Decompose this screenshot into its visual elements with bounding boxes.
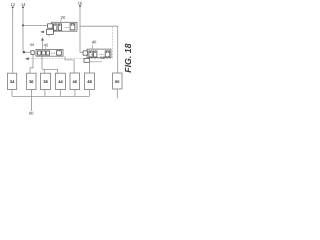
wire feed rail to box3 and box4 — [42, 69, 58, 73]
stub box6 to bus — [88, 90, 90, 97]
wire top bus from antenna3 to right — [80, 26, 118, 73]
wire antenna3 vertical — [79, 7, 81, 53]
dashed control line horizontal — [28, 58, 112, 60]
U1 input pad — [48, 24, 53, 28]
U3 ellipsis dots — [50, 52, 53, 55]
svg-text:38: 38 — [43, 79, 48, 84]
switch box 4 — [56, 73, 66, 89]
U2 input pad — [83, 51, 88, 55]
U1 filter F2 — [58, 24, 61, 30]
svg-text:52: 52 — [100, 56, 104, 60]
svg-text:16: 16 — [78, 1, 83, 6]
stub box5 to bus — [74, 90, 76, 97]
wire branch antenna2 to filter bank U1 input — [23, 24, 48, 26]
svg-text:44: 44 — [30, 43, 34, 47]
U2 filter Fn — [105, 51, 110, 57]
U1 lower pad — [46, 29, 53, 34]
svg-text:42: 42 — [44, 42, 49, 47]
svg-text:48: 48 — [87, 79, 92, 84]
U2 ellipsis dots — [99, 53, 102, 56]
wire U3 right output to switch box5 — [65, 56, 74, 73]
stub box1 to bus — [11, 90, 13, 97]
U3 filter F1 — [38, 51, 41, 55]
dashed control stub with left arrowhead under U1 — [43, 31, 50, 33]
switch box 5 — [70, 73, 80, 90]
switch box 1 — [8, 73, 17, 89]
svg-text:36: 36 — [29, 79, 34, 84]
junction dot A — [22, 24, 24, 26]
junction dot B — [23, 51, 25, 53]
wire U2 output right — [90, 61, 102, 63]
svg-text:40: 40 — [92, 40, 97, 45]
antenna 3 terminal tick — [79, 5, 81, 7]
antenna 2 terminal tick — [22, 7, 24, 9]
wire U3 left output down to switch box2 — [30, 55, 33, 73]
svg-text:FIG. 18: FIG. 18 — [123, 43, 133, 72]
output bus — [12, 95, 89, 97]
svg-text:50: 50 — [115, 79, 120, 84]
stub box4 to bus — [59, 90, 61, 97]
filter bank module U1 — [52, 22, 77, 31]
wire antenna3 into filter bank U2 — [80, 52, 83, 54]
svg-text:46: 46 — [72, 79, 77, 84]
stub box3 to bus — [44, 90, 46, 97]
wire antenna1 vertical — [12, 8, 14, 73]
arrow from U3 top pointing up — [41, 40, 43, 49]
U3 filter Fn — [57, 51, 62, 55]
svg-text:20: 20 — [61, 15, 66, 20]
wire antenna2 to filter bank U3 input — [23, 51, 31, 53]
U3 filter F3 — [46, 51, 49, 55]
dashed control bus vertical — [111, 26, 113, 58]
U3 filter F2 — [42, 51, 45, 55]
filter bank module U2 — [87, 49, 111, 58]
output drop — [30, 96, 32, 111]
U1 filter Fn — [70, 24, 75, 30]
U1 ellipsis dots — [64, 26, 67, 29]
arrowhead left under U1 — [40, 31, 44, 34]
switch box 6 — [85, 73, 95, 90]
svg-text:44: 44 — [58, 79, 63, 84]
svg-text:14: 14 — [21, 2, 26, 7]
switch box 3 — [41, 73, 51, 89]
U1 filter F1 — [54, 24, 57, 30]
antenna 1 terminal tick — [12, 7, 14, 9]
filter bank module U3 — [36, 49, 63, 56]
svg-text:34: 34 — [10, 79, 15, 84]
wire U3 bottom output down — [41, 56, 43, 69]
svg-text:12: 12 — [11, 2, 16, 7]
wire U2 lower pad to switch box6 — [88, 62, 90, 73]
U2 filter F1 — [89, 51, 92, 57]
wire antenna2 vertical — [22, 8, 24, 52]
U2 filter F2 — [94, 51, 97, 57]
U2 lower pad — [84, 58, 90, 62]
U1 lower pad stub — [48, 34, 50, 36]
stub box7 down — [116, 89, 118, 98]
stub box2 to bus — [30, 90, 32, 97]
wire stub to switch box3 — [43, 69, 45, 73]
arrowhead left on control line — [25, 57, 29, 60]
U3 input pad — [31, 51, 34, 55]
switch box 7 — [113, 73, 123, 89]
switch box 2 — [27, 73, 36, 89]
